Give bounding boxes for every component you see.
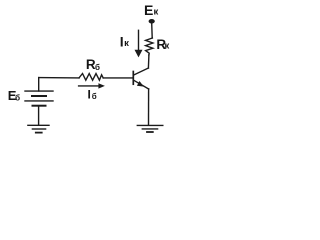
- resistor Rb: [79, 74, 103, 81]
- svg-text:б: б: [92, 92, 97, 101]
- wire emitter to ground: [148, 89, 150, 125]
- battery Eb plate 2 (short -): [32, 95, 46, 97]
- ground (emitter): [137, 124, 163, 126]
- battery Eb plate 1 (long +): [25, 90, 53, 92]
- svg-text:I: I: [120, 33, 124, 49]
- wire Eb to Rb: [39, 77, 79, 79]
- wire down to battery: [38, 78, 40, 91]
- wire base: [103, 77, 132, 79]
- current arrow Ik: [138, 30, 140, 50]
- svg-text:E: E: [144, 2, 153, 18]
- transistor VT collector lead: [134, 68, 149, 75]
- wire battery to ground: [38, 106, 40, 126]
- transistor VT base bar: [132, 72, 134, 85]
- ground (battery): [28, 124, 49, 126]
- svg-text:к: к: [124, 38, 129, 49]
- battery Eb plate 3 (long +): [25, 100, 53, 102]
- svg-text:к: к: [165, 41, 170, 52]
- svg-text:I: I: [88, 87, 91, 101]
- wire dot to resistor Rk: [151, 23, 154, 38]
- resistor Rk: [146, 38, 153, 55]
- current arrow Ib: [79, 85, 100, 87]
- svg-text:к: к: [154, 7, 159, 18]
- svg-text:б: б: [95, 63, 100, 72]
- node Ek supply dot: [149, 19, 155, 24]
- svg-text:б: б: [15, 94, 20, 103]
- transistor VT emitter lead: [134, 80, 149, 89]
- battery Eb plate 4 (short -): [33, 105, 46, 107]
- transistor emitter arrowhead: [137, 81, 144, 87]
- wire Rk to collector: [147, 55, 150, 68]
